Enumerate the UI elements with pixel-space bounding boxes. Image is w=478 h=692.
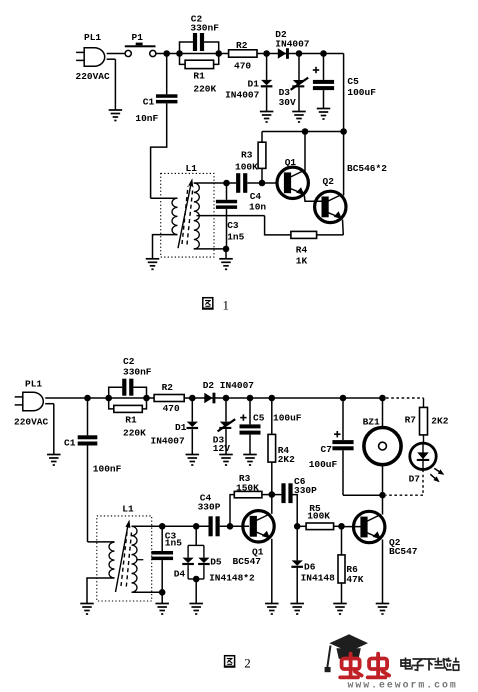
svg-text:L1: L1 (186, 163, 198, 174)
svg-text:R4: R4 (296, 244, 308, 255)
svg-text:IN4007: IN4007 (275, 39, 310, 50)
svg-text:D2 IN4007: D2 IN4007 (203, 380, 255, 391)
svg-text:C2: C2 (123, 356, 135, 367)
svg-text:220K: 220K (193, 84, 216, 95)
svg-text:L1: L1 (122, 504, 134, 515)
svg-text:1: 1 (223, 298, 230, 313)
svg-text:IN4148*2: IN4148*2 (209, 573, 255, 584)
svg-text:PL1: PL1 (25, 379, 42, 390)
svg-text:Q2: Q2 (323, 176, 335, 187)
svg-text:100uF: 100uF (273, 413, 302, 424)
svg-text:100K: 100K (307, 511, 330, 522)
svg-text:BC546*2: BC546*2 (347, 163, 387, 174)
svg-text:R1: R1 (125, 415, 137, 426)
svg-text:IN4148: IN4148 (301, 573, 336, 584)
svg-text:2K2: 2K2 (278, 454, 295, 465)
svg-text:D1: D1 (175, 422, 187, 433)
svg-text:BC547: BC547 (233, 556, 262, 567)
svg-text:330nF: 330nF (190, 23, 219, 34)
svg-text:47K: 47K (346, 574, 363, 585)
svg-text:C3: C3 (227, 220, 239, 231)
svg-text:100nF: 100nF (93, 464, 122, 475)
svg-text:R2: R2 (236, 40, 248, 51)
svg-text:R2: R2 (162, 382, 174, 393)
svg-text:C5: C5 (253, 413, 265, 424)
svg-text:R7: R7 (405, 415, 417, 426)
svg-text:220K: 220K (123, 428, 146, 439)
svg-text:10nF: 10nF (135, 113, 158, 124)
svg-text:BC547: BC547 (389, 546, 418, 557)
svg-text:100K: 100K (235, 162, 258, 173)
svg-text:2K2: 2K2 (431, 416, 448, 427)
svg-text:C1: C1 (143, 96, 155, 107)
svg-text:1n5: 1n5 (227, 231, 244, 242)
svg-text:BZ1: BZ1 (363, 417, 380, 428)
svg-text:P1: P1 (132, 32, 144, 43)
svg-text:220VAC: 220VAC (76, 71, 111, 82)
svg-text:R3: R3 (241, 150, 253, 161)
svg-text:330P: 330P (198, 502, 221, 513)
svg-text:D1: D1 (248, 78, 260, 89)
svg-text:330P: 330P (294, 485, 317, 496)
svg-text:www.eeworm.com: www.eeworm.com (348, 680, 458, 691)
svg-text:D4: D4 (174, 569, 186, 580)
svg-text:1n5: 1n5 (165, 538, 182, 549)
svg-text:D6: D6 (304, 562, 316, 573)
svg-text:C1: C1 (64, 438, 76, 449)
svg-text:150K: 150K (236, 482, 259, 493)
svg-text:330nF: 330nF (123, 367, 152, 378)
svg-text:C5: C5 (347, 76, 359, 87)
svg-text:220VAC: 220VAC (14, 417, 49, 428)
svg-text:2: 2 (244, 656, 251, 671)
svg-text:30V: 30V (279, 97, 296, 108)
svg-text:IN4007: IN4007 (225, 90, 260, 101)
svg-text:IN4007: IN4007 (151, 436, 186, 447)
svg-text:C7: C7 (321, 444, 333, 455)
svg-text:D5: D5 (210, 557, 222, 568)
svg-text:D7: D7 (409, 474, 421, 485)
svg-text:C4: C4 (250, 191, 262, 202)
svg-text:100uF: 100uF (347, 87, 376, 98)
svg-text:12V: 12V (213, 443, 230, 454)
svg-text:1K: 1K (296, 255, 308, 266)
svg-text:Q1: Q1 (285, 157, 297, 168)
svg-text:10n: 10n (249, 202, 266, 213)
svg-text:100uF: 100uF (309, 459, 338, 470)
svg-text:470: 470 (234, 60, 251, 71)
svg-text:R1: R1 (193, 71, 205, 82)
svg-text:PL1: PL1 (84, 32, 101, 43)
svg-text:470: 470 (163, 403, 180, 414)
